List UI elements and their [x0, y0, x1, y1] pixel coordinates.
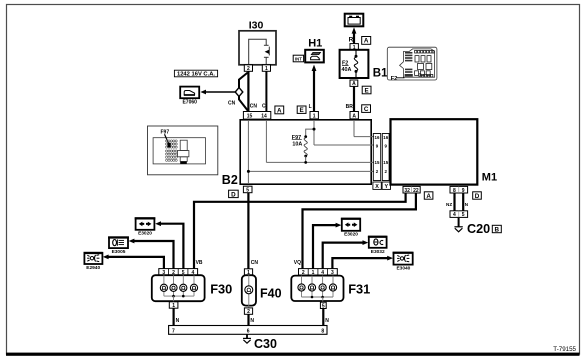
svg-text:I30: I30 [249, 20, 264, 32]
svg-text:L: L [309, 104, 312, 110]
svg-text:C: C [364, 106, 369, 113]
svg-text:E: E [299, 107, 303, 114]
svg-text:32: 32 [404, 188, 410, 194]
svg-text:40A: 40A [342, 67, 352, 73]
svg-text:R: R [349, 37, 354, 44]
svg-text:Y: Y [384, 184, 388, 190]
svg-text:N: N [250, 318, 254, 324]
svg-text:2: 2 [247, 66, 250, 72]
svg-text:F2: F2 [391, 76, 398, 82]
svg-text:F30: F30 [210, 281, 232, 296]
svg-text:1242 16V C.A.: 1242 16V C.A. [177, 72, 215, 78]
svg-text:A: A [277, 107, 282, 114]
svg-text:5: 5 [246, 188, 249, 194]
svg-text:E3020: E3020 [138, 231, 152, 237]
svg-text:NZ: NZ [446, 202, 452, 207]
svg-text:C: C [262, 104, 266, 110]
svg-text:F40: F40 [260, 286, 282, 300]
svg-text:B1: B1 [373, 68, 388, 80]
svg-text:15: 15 [383, 160, 388, 165]
svg-text:T-79155: T-79155 [553, 346, 576, 353]
svg-text:15: 15 [375, 160, 380, 165]
svg-text:CN: CN [228, 100, 236, 106]
svg-text:1: 1 [313, 114, 316, 120]
svg-text:A: A [352, 114, 356, 120]
svg-text:10A: 10A [292, 142, 302, 148]
svg-text:4: 4 [453, 212, 456, 218]
svg-text:A: A [364, 38, 369, 45]
svg-text:6: 6 [247, 328, 250, 334]
svg-text:14: 14 [261, 114, 267, 120]
svg-text:M1: M1 [482, 172, 497, 184]
svg-text:E2940: E2940 [86, 265, 100, 271]
svg-text:VB: VB [196, 260, 203, 266]
svg-text:E3032: E3032 [371, 249, 385, 255]
svg-text:8: 8 [321, 328, 324, 334]
svg-text:E: E [364, 87, 368, 94]
svg-text:N: N [325, 318, 329, 324]
svg-text:F31: F31 [348, 281, 370, 296]
svg-text:16: 16 [375, 135, 380, 140]
svg-text:X: X [375, 184, 379, 190]
svg-text:INT: INT [295, 56, 302, 61]
svg-text:E3020: E3020 [344, 232, 358, 238]
svg-text:7: 7 [172, 328, 175, 334]
svg-text:BR: BR [346, 104, 354, 110]
svg-text:E3040: E3040 [396, 265, 410, 271]
svg-text:1: 1 [265, 66, 268, 72]
svg-text:VQ: VQ [294, 260, 301, 266]
svg-text:D: D [475, 193, 480, 200]
svg-text:H1: H1 [308, 38, 322, 50]
svg-text:E3005: E3005 [112, 249, 126, 255]
svg-text:E7060: E7060 [182, 99, 197, 105]
svg-text:A: A [352, 81, 356, 87]
svg-text:C30: C30 [254, 337, 277, 351]
svg-text:C20: C20 [467, 222, 490, 236]
svg-text:D: D [231, 191, 236, 198]
svg-text:22: 22 [413, 188, 419, 194]
svg-text:15: 15 [247, 114, 253, 120]
svg-text:CN: CN [251, 260, 259, 266]
svg-text:CN: CN [250, 104, 258, 110]
svg-text:9: 9 [462, 188, 465, 194]
svg-text:N: N [176, 318, 180, 324]
svg-text:B2: B2 [222, 173, 238, 187]
svg-text:16: 16 [383, 135, 388, 140]
svg-text:8: 8 [453, 188, 456, 194]
svg-text:5: 5 [462, 212, 465, 218]
svg-text:B: B [495, 226, 500, 233]
svg-text:A: A [426, 193, 431, 200]
